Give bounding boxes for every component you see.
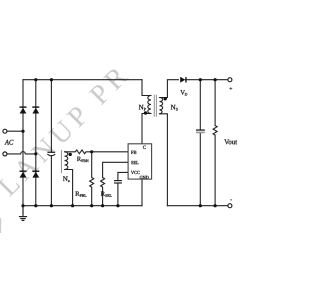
polarity dot primary	[144, 111, 147, 114]
polarity dot aux	[69, 153, 72, 156]
node top rail bulk cap	[50, 78, 53, 81]
label Na	[63, 176, 70, 182]
transformer T1 core	[154, 95, 156, 117]
label Vout	[224, 139, 237, 144]
wire output cap leg	[199, 80, 201, 206]
node bottom rail RSEL	[101, 204, 104, 207]
inductor aux winding Na	[65, 152, 68, 170]
diode D4 bridge	[32, 171, 39, 178]
node bottom rail bulk cap	[50, 204, 53, 207]
inductor aux winding Na core bar	[61, 150, 63, 173]
label pin FB	[131, 151, 136, 154]
label pin VCC	[131, 171, 140, 174]
wire RSEL branch	[103, 162, 129, 205]
label pin SEL	[131, 161, 138, 164]
wire secondary output rail	[186, 79, 228, 81]
wire secondary bottom lead	[160, 114, 168, 206]
label pin C	[143, 146, 146, 149]
wire primary top lead	[142, 80, 151, 96]
node output bottom cap	[199, 204, 202, 207]
label plus	[230, 87, 233, 90]
terminal AC bottom	[3, 152, 7, 156]
label Np	[139, 105, 146, 111]
capacitor C-bulk	[47, 152, 55, 155]
transformer T1 secondary winding Ns	[160, 98, 163, 114]
polarity dot secondary	[164, 97, 167, 100]
terminal Vout minus	[228, 204, 232, 208]
op-amp U1 controller box	[128, 144, 152, 179]
node bottom rail ground	[21, 204, 24, 207]
wire IC GND pin to rail	[141, 179, 143, 206]
wire VCC branch	[118, 172, 128, 205]
diode D1 bridge	[20, 106, 27, 113]
resistor RFBH zigzag	[75, 150, 86, 154]
node bottom rail aux	[71, 204, 74, 207]
wire AC line 1	[7, 130, 23, 132]
terminal AC top	[3, 129, 7, 133]
wire bulk cap leg	[50, 80, 52, 206]
label RFBH	[77, 157, 89, 162]
label Ns	[171, 105, 178, 111]
node output rail cap	[199, 78, 202, 81]
label pin GND	[140, 176, 149, 179]
transformer T1 primary winding Np	[148, 96, 151, 114]
wire aux top to FB	[65, 151, 129, 153]
wire top rail primary	[23, 79, 142, 81]
wire bridge leg 2	[35, 80, 37, 206]
wire RFBL branch	[91, 152, 93, 206]
node AC1 leg1	[21, 130, 24, 133]
terminal Vout plus	[228, 78, 232, 82]
capacitor C-out	[196, 129, 205, 133]
wire bottom rail primary	[23, 205, 142, 207]
label minus	[230, 199, 232, 201]
node output bottom resistor	[214, 204, 217, 207]
label RSEL	[101, 192, 112, 197]
label AC	[5, 140, 14, 145]
node bottom rail leg2	[34, 204, 37, 207]
label VD	[180, 90, 187, 95]
wire bridge leg 1	[22, 80, 24, 206]
diode D2 bridge	[32, 106, 39, 113]
wire AC line 2 with hop over leg1	[7, 152, 36, 154]
wire secondary top lead	[160, 80, 179, 98]
wire primary bottom lead to IC pin C	[142, 114, 151, 144]
node top rail leg2	[34, 78, 37, 81]
label RFBL	[75, 192, 86, 197]
wire bottom rail secondary	[167, 205, 227, 207]
node bottom rail Cvcc	[116, 204, 119, 207]
wire aux bottom return	[65, 170, 73, 206]
node AC2 leg2	[34, 152, 37, 155]
node output rail resistor	[214, 78, 217, 81]
resistor RFBL zigzag	[90, 178, 94, 188]
resistor load zigzag	[213, 126, 217, 136]
capacitor C-vcc	[114, 181, 122, 183]
node bottom rail RFBL	[90, 204, 93, 207]
wire load resistor leg	[214, 80, 216, 206]
resistor RSEL zigzag	[101, 178, 105, 188]
node FB junction	[90, 150, 93, 153]
diode D3 bridge	[20, 171, 27, 178]
watermark edge fragment	[0, 218, 1, 233]
ground	[19, 206, 27, 221]
diode VD output rectifier	[180, 77, 186, 83]
